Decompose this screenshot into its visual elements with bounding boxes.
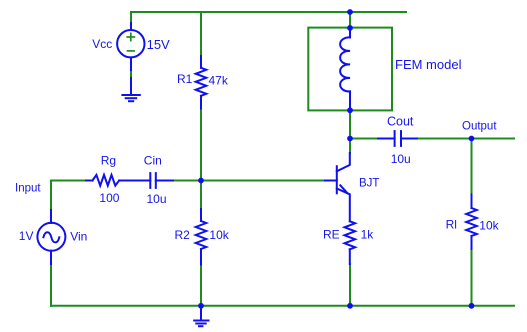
capacitor Cout [378, 131, 417, 146]
wire Cout to output node [417, 138, 472, 140]
wire output right stub [472, 138, 515, 140]
svg-text:10u: 10u [391, 152, 411, 166]
svg-text:100: 100 [99, 191, 119, 205]
svg-text:1V: 1V [19, 229, 34, 243]
Vcc plus sign [127, 33, 134, 40]
svg-text:1k: 1k [361, 228, 375, 242]
junction top rail / FEM [347, 9, 353, 15]
ground (Vcc) [122, 95, 139, 101]
junction bottom RE [347, 303, 353, 309]
svg-text:47k: 47k [209, 74, 229, 88]
svg-text:10k: 10k [209, 228, 229, 242]
junction collector node [347, 136, 353, 142]
svg-text:RE: RE [323, 228, 340, 242]
junction FEM box top [347, 25, 353, 31]
transistor Q1 BJT [325, 153, 350, 221]
wire FEM box feed [349, 12, 351, 28]
wire input horizontal [51, 180, 86, 182]
svg-text:R1: R1 [177, 72, 193, 86]
wire Vcc top drop [130, 12, 132, 23]
resistor R1 [196, 56, 207, 109]
svg-text:15V: 15V [147, 37, 170, 52]
wire R1 bottom to base node [200, 109, 202, 181]
svg-text:Rl: Rl [446, 218, 457, 232]
ground (bottom rail) [194, 306, 208, 326]
wire FEM box to collector node [349, 111, 351, 154]
resistor Rg [86, 175, 150, 186]
svg-text:Cin: Cin [144, 154, 162, 168]
inductor (FEM model) [340, 28, 350, 110]
FEM model box [308, 28, 392, 111]
svg-text:FEM model: FEM model [395, 57, 462, 72]
svg-text:Input: Input [15, 183, 41, 195]
wire Cin to base node [173, 180, 201, 182]
svg-text:R2: R2 [175, 228, 191, 242]
voltage source Vin [37, 210, 65, 264]
wire R2 top [200, 181, 202, 210]
svg-text:Rg: Rg [101, 154, 116, 168]
wire Rl bottom [471, 249, 473, 306]
wire base node to BJT [201, 180, 325, 182]
svg-text:10k: 10k [479, 219, 499, 233]
svg-text:10u: 10u [147, 192, 167, 206]
junction bottom Rl [469, 303, 475, 309]
svg-text:Output: Output [462, 121, 497, 133]
voltage source Vcc [117, 23, 144, 95]
junction FEM box bottom [347, 107, 353, 113]
junction bottom R2/ground [198, 303, 204, 309]
junction base node [198, 178, 204, 184]
capacitor Cin [150, 173, 173, 188]
svg-text:BJT: BJT [359, 177, 379, 189]
wire R2 bottom [200, 265, 202, 306]
wire Rl top [471, 139, 473, 195]
Vcc minus sign [128, 50, 135, 52]
wire Vcc to ground segment [130, 70, 132, 78]
wire collector node to Cout [350, 138, 378, 140]
resistor Rl [466, 194, 477, 249]
wire top rail [131, 11, 406, 13]
svg-text:Vcc: Vcc [92, 37, 112, 51]
resistor RE [345, 221, 356, 264]
wire input vertical to Vin [50, 181, 52, 211]
junction output node [469, 136, 475, 142]
svg-text:Cout: Cout [387, 115, 414, 129]
wire Vin bottom [50, 264, 52, 306]
resistor R2 [196, 209, 207, 265]
wire RE bottom [349, 264, 351, 306]
wire bottom rail [51, 305, 514, 307]
svg-text:Vin: Vin [70, 229, 87, 243]
wire R1 top [200, 12, 202, 56]
